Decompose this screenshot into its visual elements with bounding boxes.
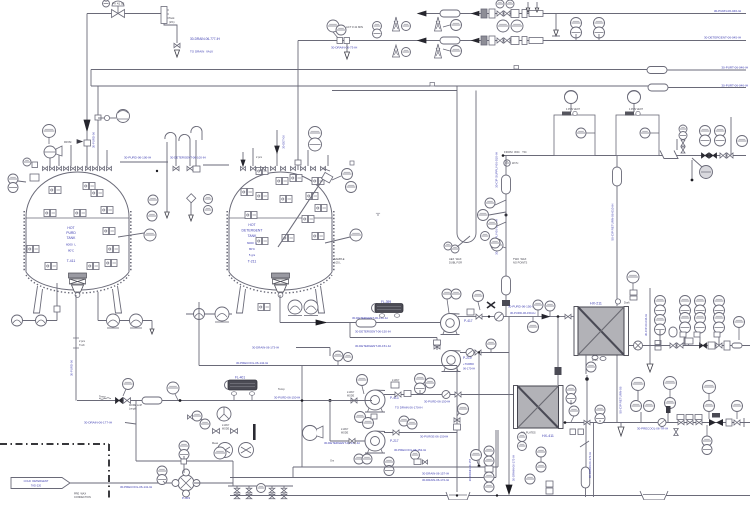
line label rotated T-411 feed (92, 132, 96, 148)
wire drop x586 c (585, 488, 587, 497)
junction (564, 421, 567, 424)
diamond fitting (187, 194, 196, 203)
drain funnel (660, 151, 678, 159)
grid tail d (718, 337, 720, 345)
rot label bc right (512, 455, 516, 481)
svg-text:30-PURT-06-046-IH: 30-PURT-06-046-IH (721, 83, 748, 87)
stub arrow (150, 329, 154, 334)
tank T-411 instrument box LT (44, 210, 56, 217)
mid col box b (546, 488, 553, 494)
svg-text:06-170-IH: 06-170-IH (463, 367, 475, 371)
link circle (104, 115, 109, 120)
tank T-411 tag (67, 259, 76, 263)
filter FL-401 supports (231, 392, 254, 401)
floor drain basin 2 (640, 491, 668, 500)
valve near mode c (349, 439, 355, 444)
vessel 2 nozzle cluster (625, 111, 640, 115)
riser x233 (232, 461, 234, 486)
riser valve (434, 345, 440, 349)
fitting P-003 (181, 459, 187, 464)
tank T-411 nozzle flange x109 (107, 167, 112, 171)
wire V302 (301, 366, 303, 466)
instrument bubble on drop A (471, 450, 482, 467)
svg-text:Tank: Tank (169, 16, 175, 20)
pipe precool header (199, 365, 457, 367)
bubble right t2 b (346, 182, 357, 193)
fitting small left (32, 162, 38, 168)
wire branch to HX-411 (557, 317, 559, 385)
pump P-003 lobe (172, 469, 200, 497)
filter FL-399 (372, 304, 404, 313)
outlet valve c (677, 343, 683, 348)
inline silencer on header top (647, 67, 667, 74)
svg-text:CONNECTION: CONNECTION (74, 496, 91, 499)
level bubble vessel1 (576, 128, 595, 138)
inline unit line1 (511, 10, 519, 18)
tank T-411 nozzle flange x88 (86, 167, 91, 171)
instrument bubble bc2 (484, 456, 494, 466)
isolation valve line2 b (504, 38, 510, 43)
wire U leg right (475, 91, 477, 234)
level gauge ticks (167, 10, 169, 18)
heat exchanger HX-211 (574, 307, 629, 356)
svg-text:Temp: Temp (278, 387, 285, 391)
tank T-411 instrument box TI b (91, 190, 103, 197)
line label 30-DRAIN mid (252, 346, 279, 350)
inline unit line2 d (529, 38, 543, 44)
svg-text:4 PCS VENT: 4 PCS VENT (566, 108, 580, 111)
pipe header bottom cont (668, 87, 746, 89)
rupture bubble b (36, 315, 47, 326)
bubble tail x638 (637, 391, 639, 400)
bottom corner riser (292, 467, 294, 478)
inline silencer line1 (440, 10, 460, 17)
pipe bottom twin lower (230, 477, 496, 479)
outlet unit a (655, 341, 661, 345)
pump tag P-413 (390, 396, 399, 400)
svg-text:FL-401: FL-401 (235, 376, 245, 380)
shaded instrument bubble (700, 166, 713, 179)
svg-text:6000 L: 6000 L (247, 241, 257, 245)
offpage connector flag (11, 478, 70, 489)
instrument bubble chain 3 (487, 219, 497, 229)
inline strainer suction (356, 319, 376, 327)
svg-text:50-CIP RETURN-06: 50-CIP RETURN-06 (619, 386, 623, 413)
instrument bubble P-003 (157, 466, 167, 485)
valve on x457 (454, 418, 460, 423)
note 30x PLATES (521, 431, 536, 435)
wire nozzle n4 (106, 150, 108, 166)
note TxxK (79, 344, 85, 347)
instrument bubble pair grid x719 (714, 296, 725, 317)
svg-text:30-PURD-06-150-IH: 30-PURD-06-150-IH (274, 396, 300, 400)
drain mid v (329, 348, 331, 357)
instrument bubble above (123, 379, 134, 397)
instrument bubble below b (363, 418, 374, 429)
wire riser to tank wall (56, 283, 58, 321)
svg-text:30-PRECOOL-06-141-IH: 30-PRECOOL-06-141-IH (120, 485, 152, 489)
valve pair a (213, 429, 220, 434)
instrument bubble bottom (257, 484, 266, 493)
rupture bubble t2a (194, 309, 205, 320)
svg-text:30-PURD-06: 30-PURD-06 (70, 360, 74, 376)
tank T-211 name 2 (242, 229, 263, 233)
note 4 PCS VENT (566, 108, 580, 111)
HX vent valve stack (630, 290, 637, 300)
mid col box a (546, 481, 553, 487)
note MODE c (341, 432, 349, 435)
note MODE b (347, 395, 355, 398)
tank T-211 instrument box LT (241, 189, 253, 196)
inline unit (708, 342, 715, 349)
level bubble vessel2 (640, 128, 659, 138)
filter FL-399 supports (379, 314, 399, 318)
tank T-211 nozzle flange x253 (251, 167, 256, 171)
tank T-211 name 1 (248, 223, 255, 227)
support mast d (393, 45, 400, 57)
inline unit line1 c (522, 10, 527, 18)
svg-text:0.25 L: 0.25 L (334, 262, 341, 265)
svg-text:SAMPLE: SAMPLE (334, 257, 345, 261)
pipe tank1 outlet drop (75, 295, 77, 401)
junction bc (496, 494, 498, 496)
branch to agitator bubble (98, 117, 104, 119)
instrument bubble (402, 22, 411, 31)
pipe tank1 bottom right (98, 320, 152, 322)
outlet unit b (655, 346, 661, 350)
valve mov b (687, 420, 693, 425)
wire stub down (151, 321, 153, 330)
instrument bubble (443, 46, 462, 57)
wire U leg left (456, 86, 458, 233)
note SAMPLE2 (334, 262, 341, 265)
wire to tank2 (203, 164, 229, 166)
MOV box c (695, 415, 702, 420)
chain tail 1 (495, 200, 506, 205)
tank T-211 capacity (247, 241, 257, 245)
HX inlet valve (565, 314, 571, 319)
instrument bubble (425, 378, 435, 388)
drain stub valve b x284 (281, 494, 287, 499)
tank T-211 instrument box LS (280, 196, 292, 203)
pump tag P-219 (463, 356, 472, 360)
instrument bubble LIC b (336, 25, 346, 35)
inline pump block line2 b (489, 36, 495, 45)
valve (423, 460, 428, 464)
pump M-211 (288, 300, 302, 316)
instrument bubble small left (23, 158, 31, 166)
floor drain basin 1 (446, 492, 470, 500)
pipe bottom main (230, 495, 750, 497)
vent pigtail T-211 (191, 126, 202, 140)
tank T-411 temp (68, 249, 75, 253)
wire pigtail stem (195, 140, 197, 166)
svg-text:(2%): (2%) (169, 20, 175, 24)
wire nozzle n3 (97, 86, 99, 166)
from arrow (77, 140, 82, 144)
vent vessel box 1 (554, 115, 595, 156)
bubble right t2 a (332, 169, 353, 181)
wire HX-211 drain (585, 355, 587, 374)
instrument bubble pair below (702, 425, 712, 455)
instrument bubble precool b (344, 353, 353, 362)
instrument bubble two a (631, 401, 642, 412)
line label rotated outlet (70, 360, 74, 376)
inline fitting n3 (95, 115, 101, 120)
agitator shaft T-211 (278, 168, 330, 247)
between-tank bubble b (147, 211, 157, 221)
line label 30-DRAIN-06-73-IH (331, 46, 357, 50)
line label rotated cip return b (619, 386, 623, 413)
inline silencer line2 (440, 37, 460, 44)
FT box c (714, 332, 720, 337)
grid tail b (684, 337, 686, 345)
wire CIP return upper (616, 156, 618, 307)
sample bubble T-211 (350, 229, 362, 241)
valve pair hdr b (124, 398, 131, 404)
filter FL-401 (225, 380, 258, 390)
instrument bubble top left (43, 125, 56, 145)
tank T-211 instrument box TS (306, 193, 318, 200)
note 2-WAY c (341, 428, 349, 431)
inline pump block line2 a (481, 36, 487, 45)
flow arrow line1 (418, 11, 426, 16)
pump note TURBO b (463, 367, 475, 371)
svg-text:MODE: MODE (222, 428, 230, 431)
svg-text:Om: Om (330, 459, 334, 463)
support mast c (435, 44, 442, 58)
pipe drain drop left (198, 314, 200, 366)
instrument bubble bc1 (484, 446, 494, 456)
line label 30-PRECOOL-06-142-IH (236, 361, 268, 365)
svg-text:30-CIP-06-046-IH: 30-CIP-06-046-IH (644, 314, 648, 336)
svg-text:T-211: T-211 (248, 260, 257, 264)
instrument bubble (362, 454, 372, 464)
valve mov c (696, 420, 702, 425)
svg-text:NO POINTS: NO POINTS (513, 261, 528, 265)
line label 30-DETERGENT-06-150-IH a (352, 316, 388, 320)
junction V302 (301, 399, 304, 402)
vent arrow a (526, 8, 530, 12)
outlet drop ticks (73, 338, 79, 348)
svg-text:30-DETERGENT-06-045-IH: 30-DETERGENT-06-045-IH (704, 36, 741, 40)
pipe bottom twin upper (293, 466, 498, 468)
tank2 shoulder box (322, 172, 333, 183)
line label 30-DRAIN-06-177-IH (84, 421, 112, 425)
svg-text:TANK: TANK (248, 234, 258, 238)
tank T-411 instrument box PI (105, 260, 117, 267)
instrument bubble pair grid x660 (655, 296, 666, 317)
svg-text:DUBL FOR: DUBL FOR (449, 261, 462, 265)
note 4 PCS VENT b (629, 108, 643, 111)
pipe tank2 outlet drop (279, 295, 281, 323)
dark bar (253, 424, 256, 440)
relief valve vert (674, 429, 679, 436)
instrument bubble x739 (734, 317, 745, 341)
outlet valve b (670, 343, 676, 348)
svg-text:80'C: 80'C (249, 247, 256, 251)
note Temp (99, 395, 106, 399)
tank T-211 nozzle flange x263 (261, 167, 266, 171)
sample line T-411 (118, 233, 144, 237)
svg-text:30-DRAIN-06-157: 30-DRAIN-06-157 (468, 458, 472, 481)
inline element (732, 343, 742, 348)
instrument bubble (533, 300, 543, 316)
wire vent drop (166, 142, 168, 212)
instrument bubble pair grid 2c (695, 313, 706, 334)
rupture bubble a (12, 315, 23, 326)
instrument bubble mid x668 (665, 398, 676, 415)
dark fitting x668 (666, 406, 671, 413)
flow arrow suction (316, 320, 326, 325)
note WxTx (512, 162, 519, 165)
svg-text:TAD-220: TAD-220 (31, 484, 42, 488)
vent arrow down (647, 364, 653, 372)
pipe P-417 discharge (458, 316, 574, 318)
instrument bubble (451, 289, 461, 299)
tank T-211 instrument box XI (312, 233, 324, 240)
isolation valve line2 a (497, 38, 503, 43)
svg-text:ACT # 41 MIN: ACT # 41 MIN (346, 25, 363, 29)
line label 30-PRECOOL-06-TRIPS (637, 427, 668, 431)
pipe header band bottom c (476, 85, 648, 87)
inline heater 1 (502, 175, 511, 194)
chain tail 3 (497, 222, 506, 226)
svg-text:P-003: P-003 (182, 496, 190, 500)
svg-text:30-DRAIN-06-172-IH: 30-DRAIN-06-172-IH (512, 455, 516, 481)
valve left col (188, 415, 193, 419)
pump P-413 (365, 390, 385, 412)
pipe P-413 discharge (384, 394, 514, 396)
MOV box a (677, 415, 684, 420)
svg-text:HX-411: HX-411 (542, 434, 554, 438)
svg-text:30-CIP SUPPLY-06-010-IH: 30-CIP SUPPLY-06-010-IH (495, 152, 499, 188)
inline unit b (724, 341, 730, 350)
valve main end (734, 420, 740, 425)
vent vessel box 2 (616, 115, 659, 156)
dark valve on branch (555, 367, 562, 375)
instrument bubble chain 2 (478, 210, 489, 221)
P-217 discharge valve (393, 430, 399, 435)
tank T-211 bottom box (258, 304, 270, 311)
fitting (54, 306, 60, 312)
tank T-211 instrument box LI (256, 193, 268, 200)
svg-text:T-411: T-411 (67, 259, 76, 263)
instrument bubble (486, 339, 496, 352)
diag link U bottom (457, 236, 470, 247)
instrument bubble big x668 (664, 377, 677, 399)
tank T-211 instrument box LSL (256, 238, 268, 245)
tank T-411 capacity (66, 243, 76, 247)
tank T-211 left leg (237, 286, 246, 313)
junction dot (505, 214, 508, 217)
pipe from flag (70, 482, 178, 484)
tank T-411 instrument box TI d (107, 246, 119, 253)
tank T-211 nozzle flange x303 (301, 167, 306, 171)
note Temp b (278, 387, 285, 391)
drain arrow (175, 50, 180, 57)
sample line T-211 (325, 237, 350, 243)
tank T-411 left leg (34, 286, 43, 313)
instrument bubble pair mid (399, 416, 409, 426)
pipe overhead line 1 (418, 13, 746, 15)
pipe header band top (91, 69, 648, 71)
drain stub x284 (283, 486, 285, 499)
tank T-211 bottom outlet (272, 273, 290, 297)
wire riser from top header (86, 14, 88, 121)
svg-text:30-PURD-06-100-IH: 30-PURD-06-100-IH (124, 156, 151, 160)
instrument bubble pair grid 2 (655, 315, 666, 336)
tank T-411 name 2 (66, 231, 76, 235)
pipe suction branch h (350, 337, 437, 339)
svg-text:DETERGENT: DETERGENT (242, 229, 263, 233)
wire drop x457 lower (456, 366, 458, 496)
P-413 discharge valve (395, 392, 401, 397)
pump tag P-217 (390, 439, 399, 443)
diag tick (580, 441, 589, 447)
instrument bubble hx411 left a (518, 433, 527, 442)
svg-text:Meas: Meas (212, 442, 219, 445)
gauge note 2 (169, 20, 175, 24)
instrument bubble bc4 (484, 482, 494, 492)
drain stub valve a x284 (281, 488, 287, 493)
instrument bubble chain 1 (485, 198, 495, 208)
heat exchanger HX-411 (514, 386, 564, 429)
tank T-211 nozzle flange x273 (271, 167, 276, 171)
temp underline (99, 398, 111, 400)
valve dark (700, 343, 707, 348)
pump circle c217 (218, 443, 233, 458)
instrument bubble pair (571, 18, 582, 41)
pipe header band bottom b (435, 85, 477, 87)
wire nozzle n1 (58, 150, 60, 166)
drop arrow t2 (189, 215, 194, 221)
wire drop x593 (593, 423, 595, 498)
svg-text:FROM WIC TIC: FROM WIC TIC (504, 150, 527, 154)
valve (727, 153, 733, 158)
svg-text:30-DRAIN-06-172-IH: 30-DRAIN-06-172-IH (422, 478, 449, 482)
drain stub valve a x272 (269, 488, 275, 493)
instrument bubble hx411 left b (518, 442, 527, 451)
svg-text:AEX WAX: AEX WAX (449, 257, 462, 261)
inline trap (581, 467, 590, 488)
drain stub x272 (271, 486, 273, 499)
wire drop x586 (585, 423, 587, 468)
instrument bubble pair P217 (384, 457, 394, 476)
instrument bubble TI (627, 271, 639, 290)
ball valve main (658, 419, 666, 427)
vent drop arrow (165, 212, 170, 218)
note 2-WAY (392, 379, 400, 382)
svg-text:50-CIP RETURN-06-010-IH: 50-CIP RETURN-06-010-IH (611, 204, 615, 241)
svg-text:30-PRECOOL-06-142-IH: 30-PRECOOL-06-142-IH (236, 361, 268, 365)
svg-text:MODE: MODE (341, 432, 349, 435)
instrument bubble (506, 0, 514, 8)
sample bubble T-411 (144, 229, 156, 241)
tank T-411 nozzle flange x59 (57, 167, 62, 171)
svg-text:30-PRECOOL-06-TR-IH: 30-PRECOOL-06-TR-IH (637, 427, 668, 431)
valve pair hdr a (116, 398, 123, 404)
battery limit boundary v (108, 444, 110, 500)
inline unit line2 (511, 37, 519, 45)
valve (720, 153, 726, 158)
HX-211 top vent (615, 299, 620, 304)
wire nozzle t2 a (242, 152, 244, 166)
svg-text:P-413: P-413 (390, 396, 399, 400)
pump note TURBO a (463, 362, 474, 366)
MOV box b (686, 415, 693, 420)
wire vert vent (649, 288, 651, 364)
